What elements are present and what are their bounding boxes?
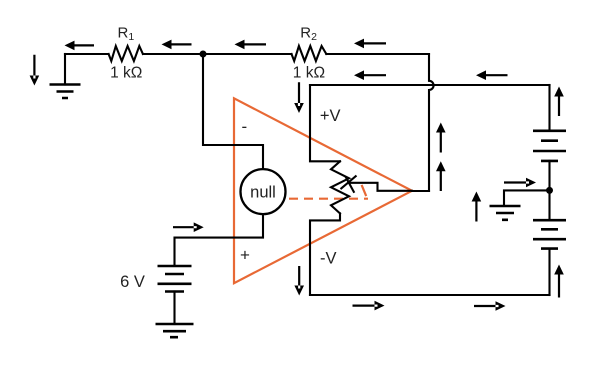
svg-text:+V: +V xyxy=(320,107,341,125)
current arrow above 6V battery pointing right xyxy=(173,222,204,232)
svg-text:-V: -V xyxy=(320,249,337,267)
node center tap dot xyxy=(546,187,553,194)
current arrow left of center-tap ground pointing up xyxy=(472,192,482,222)
ground center-tap bars xyxy=(490,206,521,220)
battery 6V plates xyxy=(158,266,192,292)
wiper arrow stroke A xyxy=(341,176,355,188)
wire top rail R1 to R2 xyxy=(143,53,292,55)
ground 6V bars xyxy=(156,324,194,337)
wire center tap to ground xyxy=(504,190,550,204)
svg-text:6 V: 6 V xyxy=(120,273,145,291)
svg-text:null: null xyxy=(250,184,276,202)
current arrow right of top battery pointing up xyxy=(554,87,564,117)
resistor R2 xyxy=(292,46,327,61)
potentiometer (op-amp model) xyxy=(331,161,349,213)
ground top-left stem xyxy=(64,54,66,85)
wire inverting input xyxy=(203,54,263,169)
dashed adjust arrow shaft xyxy=(289,198,368,200)
battery V- bottom-right plates xyxy=(533,220,566,248)
wire top rail R2 to feedback corner xyxy=(326,53,429,55)
null meter circle xyxy=(241,169,286,214)
wire top rail left segment xyxy=(65,53,109,55)
wire 6V battery to ground xyxy=(173,292,175,325)
wire +V rail to top battery xyxy=(548,85,550,130)
wire op-amp output xyxy=(412,190,429,192)
current arrow right of bottom battery pointing up xyxy=(554,265,564,298)
wire between batteries xyxy=(548,161,550,219)
svg-text:1 kΩ: 1 kΩ xyxy=(110,65,142,82)
current arrow bottom rail right pointing right xyxy=(474,301,506,311)
wire -V supply out of op-amp xyxy=(310,213,340,295)
svg-text:1 kΩ: 1 kΩ xyxy=(293,64,325,81)
ground top-left bars xyxy=(50,85,81,99)
op-amp triangle xyxy=(234,98,412,283)
current arrow far-left pointing down xyxy=(30,55,40,86)
current arrow beside feedback wire lower pointing up xyxy=(436,161,446,191)
node junction dot (feedback node) xyxy=(200,51,207,58)
wire +V rail xyxy=(310,84,550,86)
current arrow beside feedback wire upper pointing up xyxy=(436,123,446,153)
wire noninverting input xyxy=(175,214,264,264)
battery V+ top-right plates xyxy=(533,131,566,161)
current arrow +V rail left segment pointing left xyxy=(354,70,386,80)
current arrow beside -V wire pointing down xyxy=(294,266,304,296)
current arrow left of node pointing left xyxy=(162,40,192,50)
current arrow right of node pointing left xyxy=(235,40,267,50)
current arrow bottom rail left pointing right xyxy=(353,301,385,311)
current arrow +V rail right segment pointing left xyxy=(476,70,508,80)
current arrow beside +V wire pointing down xyxy=(294,82,304,113)
svg-text:-: - xyxy=(242,117,248,136)
wire bottom battery to bottom rail xyxy=(548,249,550,295)
current arrow top-left pointing left xyxy=(65,41,95,51)
wire bottom rail xyxy=(310,294,550,296)
wire feedback vertical with hop xyxy=(429,54,434,191)
dashed adjust arrow head stroke xyxy=(362,185,367,196)
resistor R1 xyxy=(109,46,143,61)
current arrow above center tap pointing right xyxy=(504,178,536,188)
wire wiper to output xyxy=(349,183,413,191)
current arrow right of R2 pointing left xyxy=(354,39,386,49)
svg-text:+: + xyxy=(240,246,250,265)
wiper arrow stroke B xyxy=(346,177,354,192)
wire +V supply into op-amp xyxy=(310,85,340,161)
